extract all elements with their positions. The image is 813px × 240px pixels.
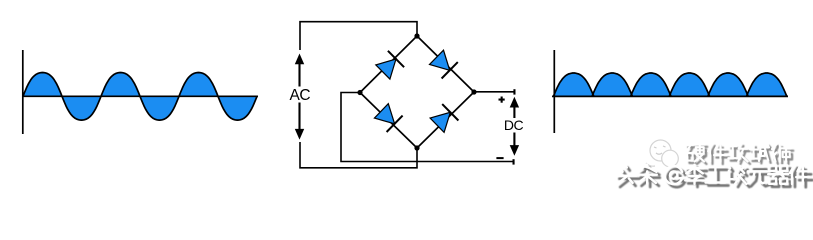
wire: bridge right node to plus output	[474, 91, 514, 93]
watermark lion logo	[646, 140, 678, 167]
bridge diamond edge: top to right	[417, 36, 474, 92]
watermark text line 1: 硬件攻城狮	[686, 144, 793, 165]
wire: AC source bottom lead to bridge bottom node	[300, 142, 417, 168]
plus sign	[499, 97, 505, 103]
junction dot: right node	[471, 89, 476, 94]
svg-text:AC: AC	[290, 87, 311, 104]
minus output terminal tick	[513, 159, 515, 164]
minus sign	[496, 157, 503, 159]
junction dot: left node	[357, 90, 362, 95]
diode D4 (bottom node to right node)	[430, 104, 458, 132]
bridge diamond edge: left to bottom	[360, 93, 417, 149]
junction dot: top node	[414, 33, 419, 38]
diode D3 (left node to bottom node)	[374, 104, 402, 132]
DC waveform vertical axis	[553, 50, 555, 133]
DC double-headed arrow	[510, 97, 519, 156]
svg-text:DC: DC	[504, 117, 524, 133]
AC input sine waveform (filled)	[23, 73, 257, 121]
AC waveform vertical axis	[22, 50, 24, 134]
watermark text line 2: 头条 @李工谈元器件	[616, 165, 812, 188]
wire: AC source top lead to bridge top node	[300, 22, 417, 50]
plus output terminal tick	[513, 89, 515, 94]
diode D2 (top node to right node)	[430, 50, 458, 78]
diode D1 (left node to top node)	[376, 51, 404, 79]
junction dot: bottom node	[414, 145, 419, 150]
bridge diamond edge: left to top	[360, 36, 417, 93]
bridge diamond edge: bottom to right	[417, 92, 474, 148]
AC waveform horizontal axis	[22, 95, 258, 97]
wire: bridge left node to minus output	[341, 93, 513, 162]
DC output waveform (rectified humps)	[553, 73, 787, 96]
AC source double-headed arrow	[295, 54, 304, 140]
DC waveform horizontal axis	[552, 95, 788, 97]
